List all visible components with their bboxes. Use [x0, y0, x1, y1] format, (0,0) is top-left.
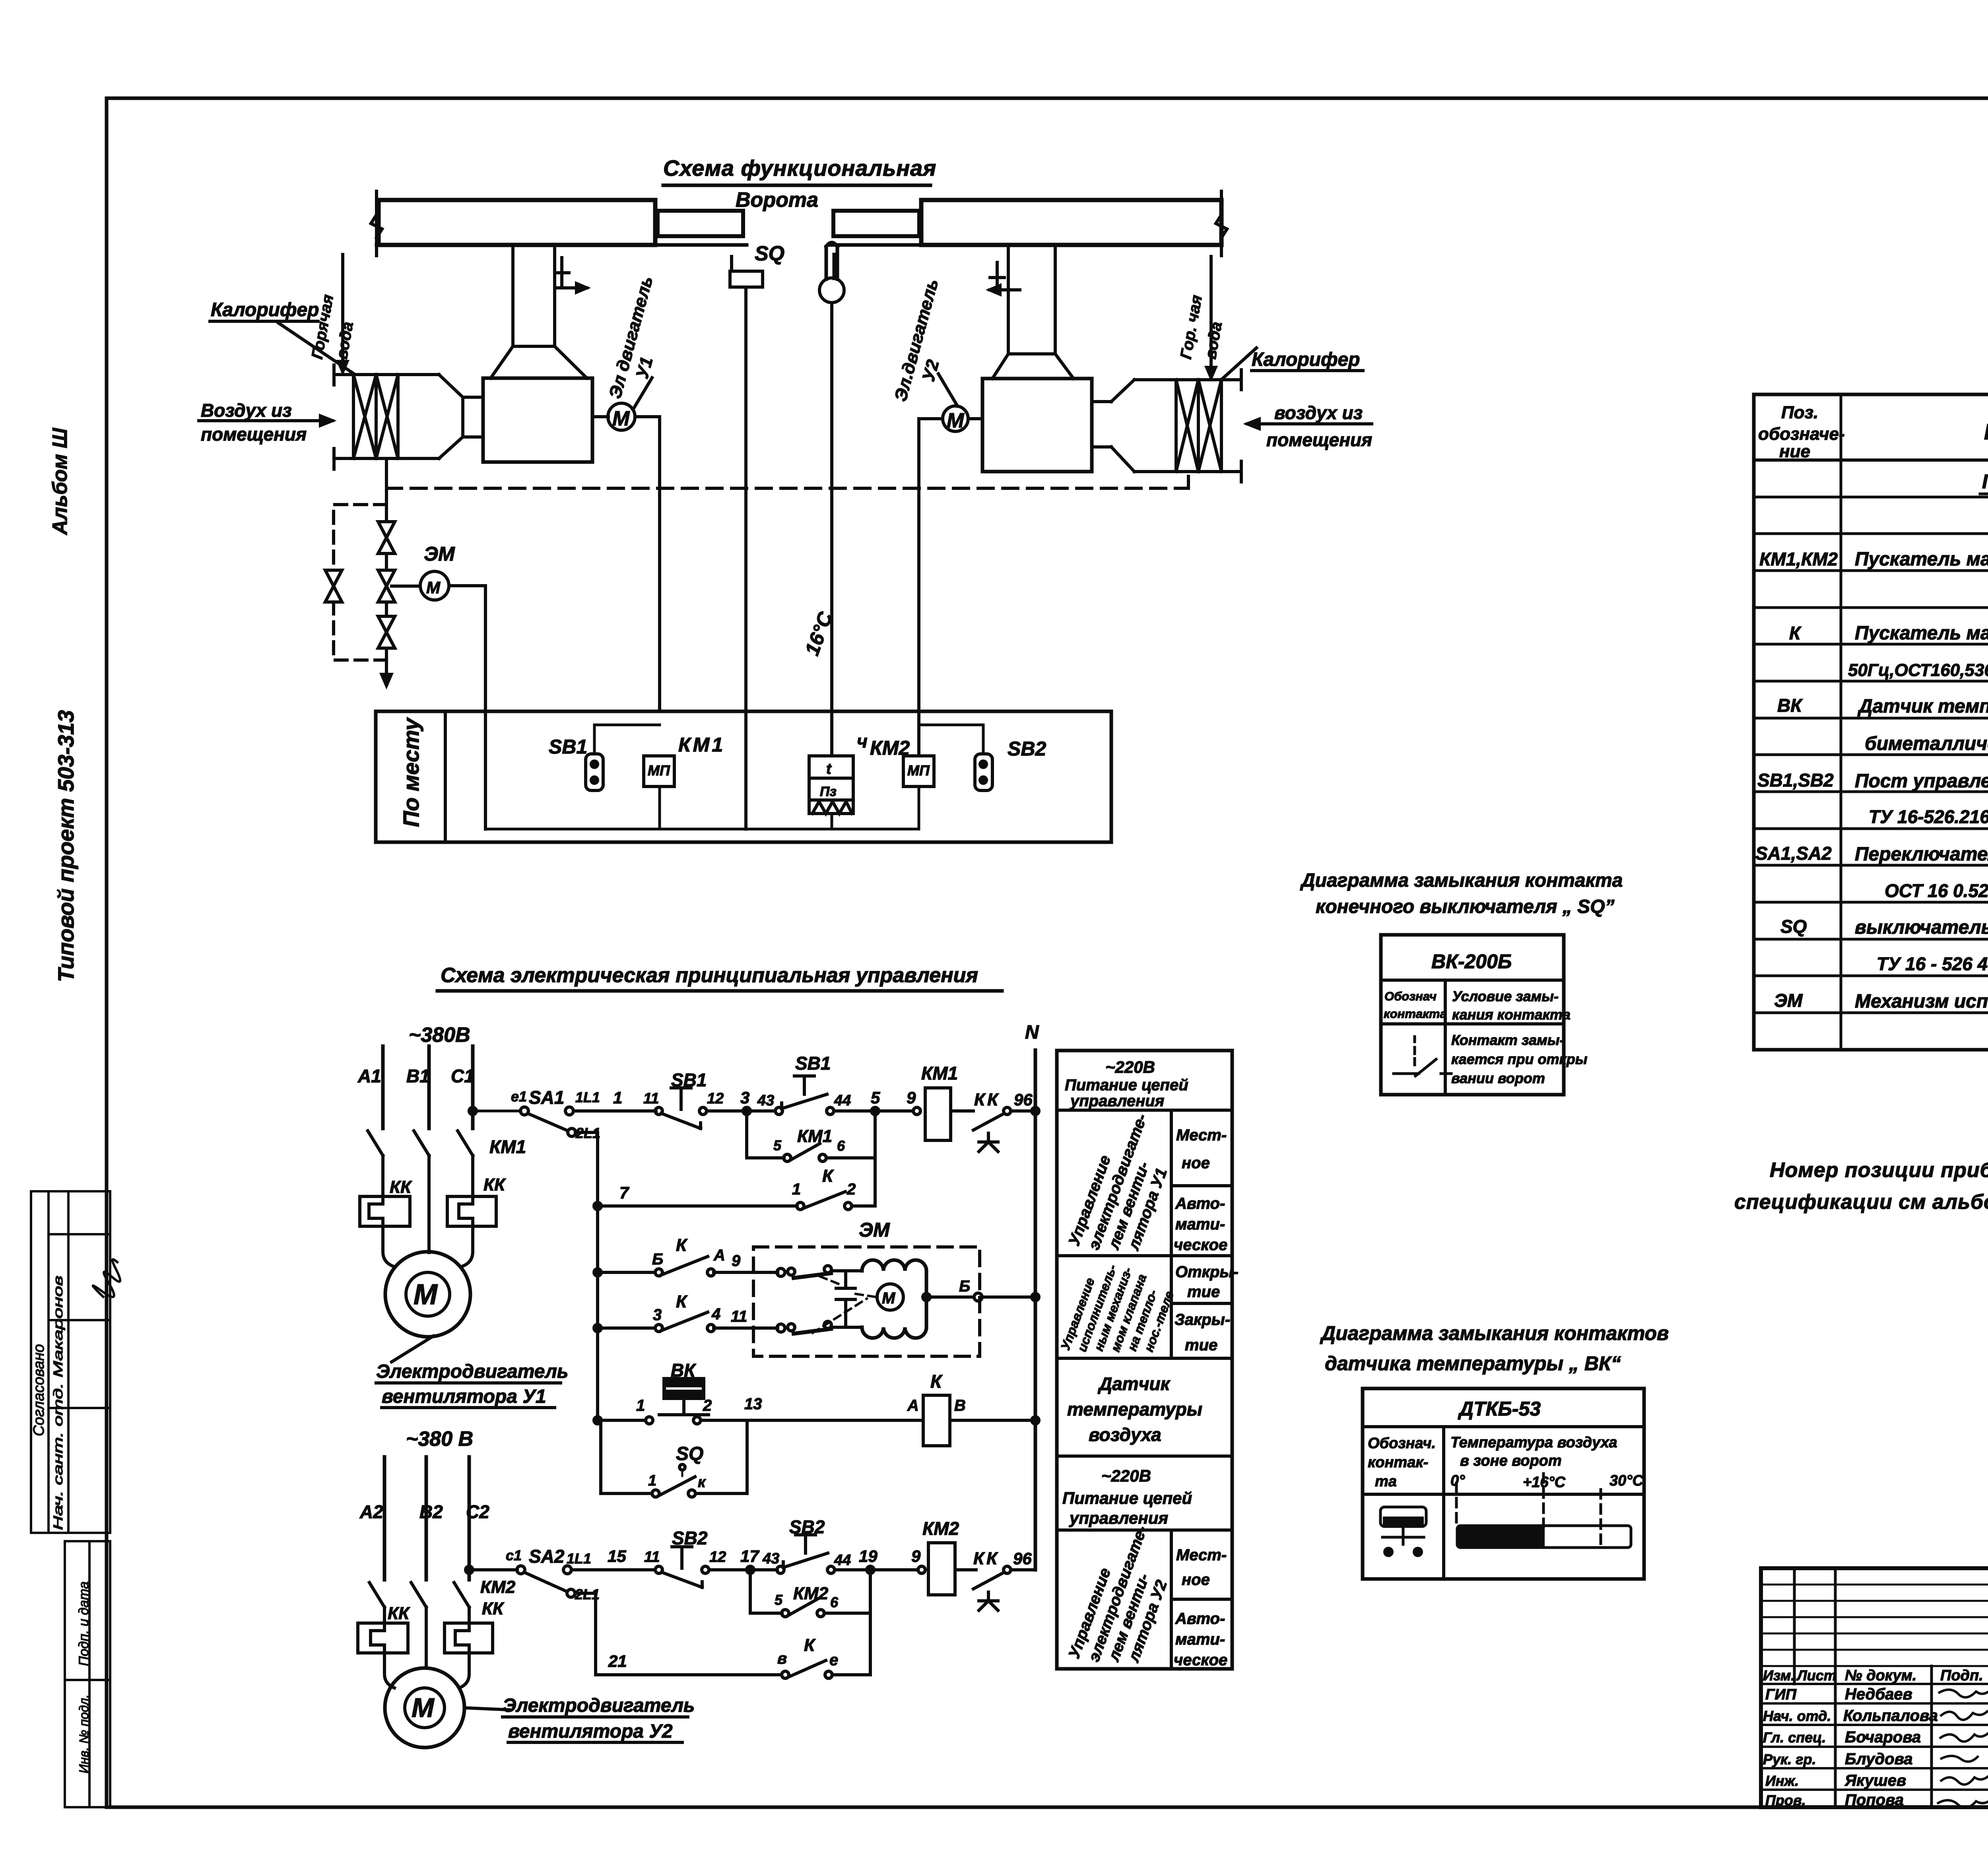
svg-text:t: t [826, 761, 832, 777]
motor M1 outer [385, 1252, 470, 1337]
svg-text:К: К [676, 1235, 688, 1255]
VK bridge contact [659, 1398, 709, 1415]
svg-text:Якушев: Якушев [1844, 1772, 1906, 1789]
right transition cone [1092, 380, 1134, 472]
SA1 terminals [520, 1107, 528, 1115]
motor M2 inner [405, 1688, 445, 1728]
svg-text:ное: ное [1182, 1154, 1210, 1172]
right motor link [968, 417, 982, 420]
svg-text:~380В: ~380В [409, 1023, 470, 1047]
svg-text:КМ1: КМ1 [489, 1136, 526, 1157]
svg-text:Калорифер: Калорифер [211, 299, 319, 320]
temp bar outline [1457, 1526, 1631, 1548]
kalorifer left underline [210, 320, 318, 323]
VK sensor body [664, 1379, 704, 1398]
podp i data cell [65, 1541, 110, 1680]
KK break contact 2 [1004, 1566, 1011, 1573]
svg-text:+16°С: +16°С [1523, 1474, 1566, 1491]
svg-text:Электродвигатель: Электродвигатель [503, 1695, 695, 1716]
svg-text:1L1: 1L1 [567, 1550, 591, 1567]
svg-text:SB1: SB1 [549, 736, 587, 758]
svg-text:4: 4 [711, 1305, 720, 1323]
KM1 wire segment [658, 786, 661, 829]
phase lines U2 [384, 1457, 469, 1580]
spec table outer [1754, 394, 1988, 1050]
motor M1 label leader [392, 1336, 433, 1362]
left fan box [483, 378, 592, 462]
right unit end ticks [1240, 370, 1243, 482]
svg-text:Ворота: Ворота [736, 188, 818, 212]
G-DIAGRAMS [1363, 935, 1644, 1579]
thermostat symbol [1380, 1507, 1426, 1526]
svg-text:КК: КК [390, 1177, 412, 1197]
approval stamp table [31, 1191, 110, 1533]
SQ loop [601, 1420, 747, 1493]
svg-text:1: 1 [636, 1397, 645, 1414]
KK heater box 4 [445, 1623, 493, 1653]
function table outer [1057, 1051, 1232, 1669]
EM wire to coil [831, 1271, 862, 1327]
gate left big bar [379, 200, 655, 245]
left unit end ticks [332, 365, 336, 469]
SA2 arm [524, 1572, 565, 1590]
node5 vertical [874, 1111, 877, 1206]
svg-text:вании ворот: вании ворот [1451, 1070, 1545, 1086]
left duct verticals [513, 245, 555, 346]
kalorifer right leader [1223, 348, 1256, 379]
svg-text:ВК: ВК [1777, 695, 1803, 716]
svg-text:2: 2 [846, 1181, 856, 1198]
svg-text:ческое: ческое [1174, 1236, 1227, 1254]
svg-text:КМ1: КМ1 [797, 1126, 832, 1146]
svg-text:Пускатель магнитный с кат.: Пускатель магнитный с кат. ~220В, 50Гц [1855, 549, 1988, 570]
svg-text:КМ2: КМ2 [870, 737, 910, 759]
vozduh left arrow line [199, 416, 332, 425]
svg-text:К: К [804, 1635, 816, 1655]
svg-text:6: 6 [830, 1594, 839, 1610]
EM contact open [788, 1268, 795, 1275]
motor M2func circle [943, 406, 968, 431]
svg-text:1L1: 1L1 [575, 1089, 600, 1105]
svg-text:помещения: помещения [1266, 429, 1372, 450]
KM1 main contacts [368, 1131, 473, 1155]
svg-text:М: М [414, 1279, 438, 1311]
svg-text:9: 9 [907, 1088, 916, 1107]
EM coil bottom [862, 1327, 926, 1338]
svg-text:5: 5 [871, 1088, 880, 1107]
G-LEFTMARGIN [31, 427, 110, 1807]
KM1 aux contact rung [747, 1156, 875, 1159]
svg-text:МП: МП [907, 762, 930, 779]
svg-text:КК: КК [482, 1599, 505, 1618]
svg-text:в зоне ворот: в зоне ворот [1460, 1453, 1562, 1469]
svg-text:температуры: температуры [1067, 1399, 1202, 1420]
spec row lines [1754, 497, 1988, 1013]
control dashed line [386, 487, 1188, 490]
feeder bus from 2L1 [575, 1132, 598, 1420]
KK heater box 3 [358, 1623, 408, 1653]
svg-text:12: 12 [709, 1549, 726, 1565]
svg-text:Мест-: Мест- [1176, 1546, 1227, 1564]
svg-text:21: 21 [608, 1652, 627, 1670]
svg-text:2L1: 2L1 [575, 1125, 600, 1141]
bypass valve [325, 570, 342, 602]
svg-text:ДТКБ-53: ДТКБ-53 [1458, 1398, 1541, 1420]
svg-text:Мест-: Мест- [1176, 1126, 1227, 1144]
KK to N [1011, 1109, 1035, 1113]
control tap rung2 [469, 1568, 517, 1571]
svg-text:11: 11 [644, 1549, 660, 1565]
KM1 MP box [644, 756, 674, 786]
svg-text:мати-: мати- [1175, 1631, 1225, 1648]
EM coil top [862, 1260, 926, 1271]
KK heater box 2 [447, 1196, 496, 1226]
po mestu box [376, 711, 1111, 842]
svg-text:Пост управления кнопочный: Пост управления кнопочный ПКЕ 212-2У3 [1855, 771, 1988, 792]
VK diagram table [1363, 1389, 1644, 1579]
svg-text:В2: В2 [419, 1501, 443, 1522]
pos4 sensor box [809, 756, 853, 800]
K contact rung auto U2 [782, 1671, 789, 1678]
svg-text:№ докум.: № докум. [1845, 1667, 1916, 1684]
EM terminal open [777, 1268, 785, 1276]
phase lines U1 [383, 1046, 473, 1128]
svg-text:А: А [713, 1247, 725, 1264]
right fan box [982, 379, 1092, 472]
phase drops to KK [383, 1155, 473, 1253]
gate right break mark [1216, 191, 1227, 256]
svg-text:11: 11 [643, 1090, 659, 1107]
svg-text:SВ2: SВ2 [789, 1517, 825, 1537]
svg-text:К: К [930, 1371, 943, 1392]
phase drops to KK U2 [384, 1607, 469, 1668]
SA1 arm [528, 1113, 566, 1130]
EM contact close [788, 1324, 795, 1331]
svg-text:КМ2: КМ2 [480, 1577, 516, 1597]
svg-text:Б: Б [652, 1251, 663, 1268]
gate left rail line [377, 243, 747, 247]
svg-text:Гл. спец.: Гл. спец. [1763, 1729, 1826, 1746]
svg-text:5: 5 [773, 1137, 782, 1154]
dashed right turnup [1187, 472, 1190, 488]
svg-text:МП: МП [648, 762, 670, 779]
svg-text:КК: КК [388, 1604, 410, 1623]
coil to KK contact [951, 1109, 973, 1113]
svg-text:выключатель конечный ВК-200Б: выключатель конечный ВК-200Б , ~220 в [1855, 917, 1988, 938]
svg-text:Согласовано: Согласовано [31, 1344, 47, 1436]
vozduh right line [1247, 419, 1372, 429]
svg-text:Типовой проект 503-313: Типовой проект 503-313 [53, 710, 78, 982]
svg-text:~380 В: ~380 В [406, 1427, 473, 1451]
svg-text:SВ1: SВ1 [671, 1070, 707, 1090]
svg-text:Пускатель магнитный ПМЕ-021.: Пускатель магнитный ПМЕ-021. с кат.~220В… [1855, 623, 1988, 644]
KM1 coil [925, 1088, 951, 1140]
svg-text:Механизм исполнительный ПР-: Механизм исполнительный ПР-1м ,~220В [1855, 991, 1988, 1012]
svg-text:КМ1: КМ1 [678, 734, 725, 756]
right motor wire [919, 419, 943, 756]
svg-text:ч: ч [857, 731, 868, 752]
N bus [1034, 1050, 1037, 1570]
svg-text:SА1,SА2: SА1,SА2 [1755, 843, 1832, 864]
svg-text:Инж.: Инж. [1765, 1773, 1799, 1789]
svg-text:К: К [676, 1292, 688, 1311]
KK heater box 1 [360, 1196, 410, 1226]
EM dashed linkage [813, 1276, 876, 1333]
svg-text:12: 12 [707, 1090, 724, 1107]
SQ contact symbol [1394, 1037, 1451, 1076]
VK rung [598, 1419, 921, 1422]
svg-text:96: 96 [1013, 1549, 1032, 1568]
right fan hood [992, 354, 1074, 379]
svg-text:SВ1,SВ2: SВ1,SВ2 [1757, 770, 1834, 790]
motor M2 feeds [384, 1653, 469, 1688]
valve 1 [378, 522, 395, 553]
svg-text:А2: А2 [359, 1501, 383, 1522]
G-SPEC [1754, 394, 1988, 1050]
function table row lines [1057, 1110, 1232, 1530]
svg-text:Обознач.: Обознач. [1368, 1435, 1436, 1452]
node19 vertical [869, 1570, 872, 1675]
svg-text:вентилятора У1: вентилятора У1 [382, 1386, 546, 1407]
svg-text:96: 96 [1014, 1090, 1033, 1109]
left heater X-box [353, 375, 398, 458]
svg-text:ГИП: ГИП [1765, 1686, 1797, 1703]
KM2 aux contact rung [750, 1612, 870, 1615]
gate right leaf [833, 211, 919, 236]
valve line from unit [385, 458, 388, 662]
svg-text:кается при откры: кается при откры [1451, 1051, 1588, 1067]
svg-text:М: М [426, 578, 441, 597]
svg-text:Обознач: Обознач [1384, 989, 1437, 1003]
svg-text:М: М [412, 1693, 435, 1723]
svg-text:вентилятора У2: вентилятора У2 [508, 1721, 673, 1742]
svg-text:Схема функциональная: Схема функциональная [663, 155, 936, 181]
G-ELEC1 [360, 991, 1039, 1570]
motor M2 outer [385, 1668, 464, 1748]
svg-text:SВ2: SВ2 [1008, 738, 1046, 760]
SB2 symbol [975, 754, 992, 790]
function table sub rows [1171, 1186, 1232, 1599]
svg-text:Подп. и дата: Подп. и дата [76, 1581, 91, 1666]
svg-text:мати-: мати- [1175, 1216, 1225, 1233]
svg-text:Недбаев: Недбаев [1845, 1686, 1912, 1703]
elec title underline [437, 989, 1002, 993]
svg-text:30°С: 30°С [1609, 1472, 1643, 1489]
svg-text:1: 1 [613, 1088, 622, 1107]
svg-text:43: 43 [757, 1092, 774, 1109]
svg-text:N: N [1025, 1022, 1039, 1043]
pos4 hatch strip [809, 800, 853, 814]
EM rung open [598, 1271, 778, 1274]
svg-text:ВК: ВК [671, 1360, 696, 1381]
signature [91, 1257, 123, 1300]
title block staff rows [1761, 1684, 1988, 1790]
SB2 stop symbol [655, 1566, 662, 1573]
svg-text:Поз.: Поз. [1781, 403, 1818, 422]
branch node3 down [745, 1111, 748, 1158]
svg-text:ВК-200Б: ВК-200Б [1431, 950, 1512, 973]
svg-text:КК: КК [483, 1175, 506, 1194]
svg-text:SQ: SQ [676, 1443, 703, 1464]
svg-text:Пз: Пз [820, 784, 837, 799]
valve 3 [378, 616, 395, 648]
svg-text:Авто-: Авто- [1175, 1195, 1225, 1212]
signatures scribbles [1937, 1687, 1988, 1808]
svg-text:Датчик температуры камерны: Датчик температуры камерный [1857, 696, 1988, 717]
svg-text:К: К [822, 1166, 834, 1186]
svg-text:КМ2: КМ2 [793, 1584, 829, 1603]
kalorifer left leader [278, 323, 354, 374]
svg-text:6: 6 [837, 1138, 845, 1154]
valve 2 [378, 570, 395, 602]
svg-text:Попова: Попова [1845, 1791, 1904, 1809]
po mestu underline [1980, 493, 1988, 495]
G-TITLEBLOCK [1761, 1568, 1988, 1807]
svg-text:17: 17 [740, 1547, 759, 1565]
svg-text:ное: ное [1182, 1571, 1210, 1589]
svg-text:М: М [612, 407, 630, 430]
KK break contact [1004, 1107, 1011, 1115]
SB1 start symbol [775, 1107, 782, 1115]
svg-text:Авто-: Авто- [1175, 1610, 1225, 1627]
svg-text:Питание цепей: Питание цепей [1062, 1489, 1192, 1507]
svg-text:Блудова: Блудова [1845, 1750, 1912, 1768]
motor M1 feeds [383, 1226, 473, 1266]
right unit casing [1134, 380, 1241, 472]
svg-text:Переключатель пакетный ГПП: Переключатель пакетный ГПП 2-10/Н2.~220В [1855, 844, 1988, 865]
svg-text:Схема электрическая принципиа: Схема электрическая принципиальная управ… [441, 964, 978, 987]
svg-text:19: 19 [859, 1547, 878, 1565]
svg-text:Откры-: Откры- [1175, 1263, 1239, 1281]
svg-text:2: 2 [703, 1397, 712, 1414]
KM2 wire segment [918, 786, 920, 829]
svg-text:та: та [1375, 1473, 1397, 1490]
svg-text:Изм.: Изм. [1763, 1667, 1795, 1684]
title block left columns [1794, 1568, 1988, 1807]
svg-text:управления: управления [1069, 1509, 1168, 1527]
svg-text:43: 43 [762, 1550, 779, 1567]
svg-text:~220В: ~220В [1101, 1466, 1151, 1485]
svg-text:к: к [698, 1474, 706, 1491]
G-FUNC [199, 185, 1372, 829]
svg-text:50Гц,ОСТ160,536. 001-72: 50Гц,ОСТ160,536. 001-72 [1848, 660, 1988, 680]
rung2 to SB2 [571, 1568, 655, 1571]
svg-text:По месту: По месту [1982, 470, 1988, 493]
svg-text:Номер позиции прибора соотв: Номер позиции прибора соответствует номе… [1770, 1159, 1988, 1182]
terminal 9 [913, 1107, 920, 1115]
svg-text:9: 9 [732, 1252, 741, 1270]
svg-text:в: в [777, 1650, 787, 1667]
SB2 start symbol [777, 1566, 784, 1573]
svg-text:Нач. отд.: Нач. отд. [1763, 1708, 1831, 1724]
left air outlet tick [555, 258, 569, 288]
spec table columns [1841, 394, 1988, 1050]
svg-text:9: 9 [911, 1547, 921, 1565]
SB1 stop symbol [655, 1107, 662, 1115]
svg-text:Нач. сант. отд. Макаронов: Нач. сант. отд. Макаронов [51, 1276, 65, 1530]
svg-text:Рук. гр.: Рук. гр. [1763, 1751, 1816, 1767]
title underline [663, 184, 930, 187]
EM motor circle [420, 571, 449, 600]
rung2 node17 to SB2 start [709, 1568, 777, 1571]
svg-text:А: А [907, 1397, 919, 1414]
thermometer stem [826, 243, 837, 279]
el dvigatel U1 leader [633, 378, 652, 410]
title block outer [1761, 1568, 1988, 1807]
left fan hood [491, 346, 587, 378]
svg-text:11: 11 [731, 1308, 747, 1325]
title block narrow rows [1761, 1585, 1988, 1666]
svg-text:К: К [1789, 623, 1802, 643]
svg-text:тие: тие [1187, 1283, 1220, 1301]
el dvigatel U1 underline [376, 1383, 561, 1408]
svg-text:Диаграмма замыкания контакта: Диаграмма замыкания контакта [1300, 870, 1623, 891]
right duct verticals [1008, 245, 1055, 354]
right heater X-box [1176, 380, 1221, 472]
gate left break mark [371, 191, 382, 256]
svg-text:С1: С1 [451, 1066, 474, 1086]
svg-text:ЭМ: ЭМ [424, 543, 455, 565]
svg-text:ние: ние [1779, 442, 1810, 461]
svg-text:КМ1: КМ1 [921, 1063, 958, 1084]
svg-text:помещения: помещения [201, 424, 307, 445]
SQ symbol [730, 256, 763, 287]
svg-text:конечного выключателя „ SQ”: конечного выключателя „ SQ” [1316, 896, 1615, 917]
control tap rung1 [473, 1110, 521, 1113]
G-FUNCTABLE [1057, 1051, 1232, 1669]
EM motor circle small [877, 1284, 903, 1310]
gate right big bar [921, 200, 1221, 245]
svg-text:ТУ 16 - 526 405 - 70: ТУ 16 - 526 405 - 70 [1877, 954, 1988, 974]
svg-text:7: 7 [619, 1183, 629, 1202]
svg-text:SВ1: SВ1 [795, 1053, 831, 1074]
el dvigatel U2 leader [938, 374, 957, 406]
gate right rail line [830, 243, 1221, 247]
EM output wire [926, 1295, 1035, 1299]
EM coil right side [925, 1271, 928, 1327]
rung1 to node5 [834, 1109, 913, 1113]
svg-text:управления: управления [1070, 1092, 1164, 1110]
left motor wire down [635, 417, 660, 711]
svg-text:КМ2: КМ2 [922, 1518, 959, 1539]
K coil [923, 1395, 950, 1446]
svg-text:Наименование: Наименование [1984, 419, 1988, 444]
svg-text:15: 15 [608, 1547, 626, 1565]
svg-text:контакта: контакта [1384, 1007, 1447, 1021]
svg-text:спецификации см альбом: спецификации см альбом V . [1734, 1190, 1988, 1214]
svg-text:Бочарова: Бочарова [1845, 1728, 1921, 1746]
left air arrow [557, 284, 587, 292]
rung1 node3 to SB1 start [707, 1109, 775, 1113]
el dvigatel U2 underline [503, 1717, 688, 1742]
svg-text:Пров.: Пров. [1765, 1792, 1806, 1808]
SQ diagram table [1381, 935, 1564, 1095]
svg-text:Диаграмма замыкания контакто: Диаграмма замыкания контактов [1320, 1322, 1669, 1344]
KM2 coil [928, 1543, 955, 1595]
motor M1 circle [608, 403, 635, 430]
EM dashed box [753, 1247, 980, 1356]
svg-text:3: 3 [740, 1088, 749, 1107]
bottom bus wire [485, 828, 919, 831]
svg-text:тие: тие [1185, 1336, 1217, 1354]
svg-text:По месту: По месту [398, 717, 423, 827]
svg-text:М: М [947, 409, 965, 432]
svg-text:Электродвигатель: Электродвигатель [376, 1361, 568, 1382]
svg-text:3: 3 [653, 1306, 662, 1324]
svg-text:КМ1,КМ2: КМ1,КМ2 [1759, 549, 1838, 569]
svg-text:Альбом Ш: Альбом Ш [49, 427, 72, 536]
branch node17 down [749, 1570, 752, 1613]
